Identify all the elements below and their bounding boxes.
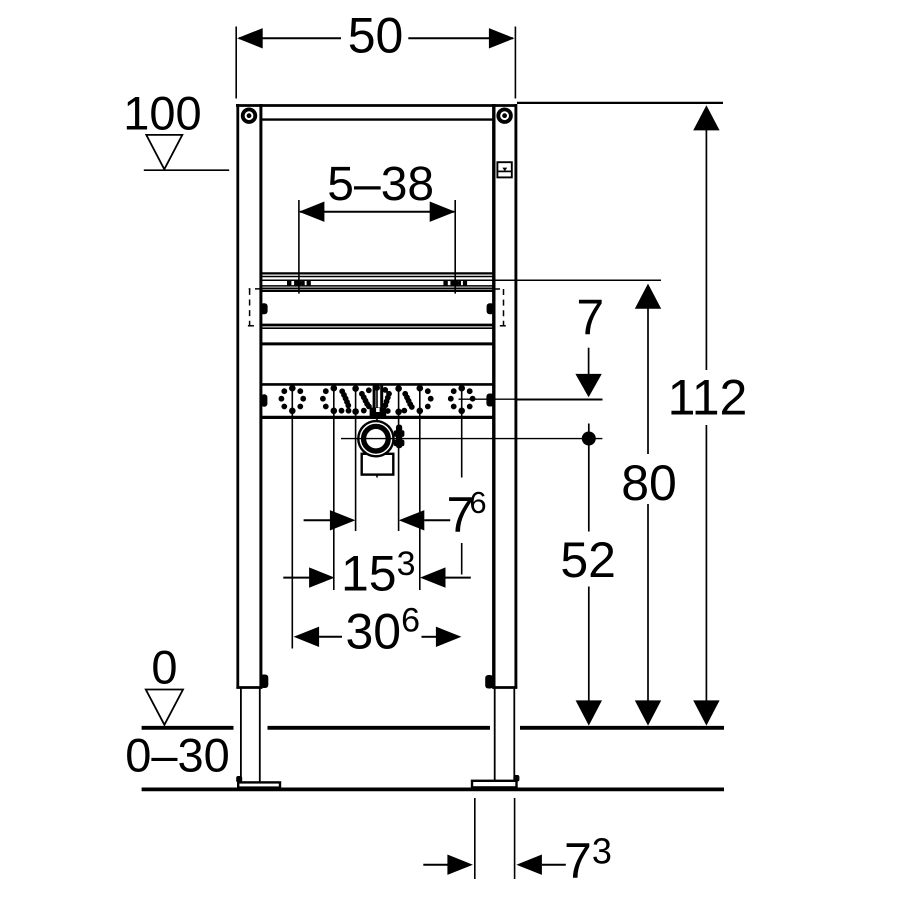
level marker 100 xyxy=(123,87,229,171)
svg-text:80: 80 xyxy=(621,455,677,511)
perforated mounting rail xyxy=(261,384,494,417)
svg-text:50: 50 xyxy=(348,8,404,64)
line through rail right xyxy=(459,398,603,400)
plate tab left xyxy=(260,303,267,314)
frame top rail xyxy=(236,106,517,120)
extension line x419.8 (15-3 right) xyxy=(419,386,421,590)
left leg xyxy=(241,689,260,783)
dimension 30-6 xyxy=(294,602,462,660)
drain center line xyxy=(341,438,602,440)
extension line x398.6 (7-6 right) xyxy=(398,386,400,531)
rail hole dots xyxy=(279,385,476,415)
dimension 52 xyxy=(560,424,616,726)
extension line y281 right xyxy=(494,279,661,281)
svg-text:5–38: 5–38 xyxy=(327,158,434,211)
corner bolt left xyxy=(241,108,257,124)
dimension 5-38 xyxy=(299,158,455,294)
dashed bracket left xyxy=(248,289,261,326)
drain socket xyxy=(357,420,395,458)
dimension 50 xyxy=(236,8,515,99)
floor line raw xyxy=(142,788,724,792)
extension line x355.6 (7-6 left) xyxy=(355,386,357,531)
frame right column xyxy=(492,104,517,689)
drain funnel bracket xyxy=(370,385,387,419)
dimension 80 xyxy=(621,284,677,726)
svg-text:112: 112 xyxy=(668,370,748,426)
drain clamp xyxy=(394,425,405,449)
dashed bracket right xyxy=(494,289,506,326)
svg-text:7: 7 xyxy=(576,290,604,346)
right leg clamp tab xyxy=(485,675,493,689)
drain trap box xyxy=(362,454,394,475)
right leg xyxy=(495,689,515,781)
extension line top right (112) xyxy=(517,102,723,104)
dimension 7-3 xyxy=(423,798,612,889)
center line x377 xyxy=(376,386,378,478)
svg-text:0–30: 0–30 xyxy=(125,729,230,782)
level indicator box on right column xyxy=(497,162,511,177)
rail end tab left xyxy=(261,394,267,407)
right foot xyxy=(472,775,519,787)
dimension 7-6 xyxy=(304,485,487,543)
left leg clamp tab xyxy=(260,675,268,689)
left foot xyxy=(236,776,280,788)
crossbar rails xyxy=(261,273,661,291)
level marker 0 xyxy=(146,641,183,725)
faucet slot marks right xyxy=(443,280,467,287)
svg-text:0: 0 xyxy=(151,641,177,694)
extension line x461.7 (30-6 right) xyxy=(461,386,463,575)
floor line finished xyxy=(142,726,724,730)
extension line x292 (30-6 left) xyxy=(291,386,293,649)
rail end tab right xyxy=(486,394,494,407)
dimension 112 xyxy=(668,105,748,725)
svg-text:52: 52 xyxy=(560,532,616,588)
corner bolt right xyxy=(496,108,512,124)
dimension 7 xyxy=(517,290,604,400)
svg-text:100: 100 xyxy=(123,87,201,140)
extension line x334 (15-3 left) xyxy=(333,386,335,590)
frame left column xyxy=(236,104,262,689)
mounting plate xyxy=(261,325,494,344)
dimension 15-3 xyxy=(283,545,471,602)
faucet slot marks left xyxy=(287,280,311,287)
plate tab right xyxy=(487,303,494,314)
